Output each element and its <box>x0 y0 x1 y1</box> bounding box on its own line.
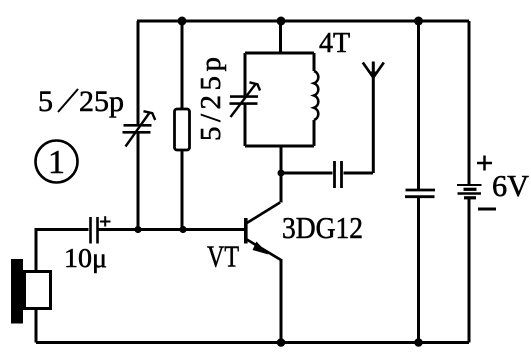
tank loop left edge lower <box>244 104 247 146</box>
battery GB plates <box>457 185 482 198</box>
wire emitter vertical <box>280 259 283 343</box>
tank loop bottom edge <box>245 145 314 148</box>
wire bypass cap upper lead <box>417 21 420 189</box>
transistor VT collector diagonal <box>246 203 280 224</box>
svg-text:5: 5 <box>38 85 53 118</box>
capacitor C5 bypass plates <box>405 190 435 197</box>
wire collector vertical <box>280 146 283 203</box>
wire battery top lead <box>468 21 471 185</box>
capacitor C3 trimmer arrow <box>231 82 261 117</box>
capacitor C2 10u plates <box>91 217 98 244</box>
tank loop right edge lower <box>313 120 316 146</box>
svg-text:3DG12: 3DG12 <box>282 210 363 245</box>
node junction bypass cap top <box>414 17 423 26</box>
battery polarity minus <box>478 208 496 211</box>
resistor R1 body <box>175 109 190 150</box>
wire coupling cap right lead <box>344 172 374 175</box>
label C1 value 5/25p <box>38 85 124 118</box>
antenna arms <box>363 63 384 78</box>
inductor L1 coil 4T <box>314 71 318 120</box>
svg-text:1: 1 <box>48 144 65 181</box>
wire bottom ground rail <box>36 341 469 344</box>
node junction tank top to rail <box>277 17 286 26</box>
svg-text:5/25p: 5/25p <box>195 57 227 141</box>
transistor VT emitter diagonal <box>246 239 281 260</box>
capacitor C4 coupling plates <box>335 161 342 188</box>
tank loop top edge <box>245 52 314 55</box>
node junction collector to coupling cap <box>278 170 285 177</box>
figure number circle 1 <box>36 141 78 183</box>
wire battery bottom lead <box>468 198 471 343</box>
capacitor C1 trimmer 5/25p plates <box>123 125 152 132</box>
battery polarity plus <box>477 156 492 171</box>
wire resistor branch upper <box>181 21 184 109</box>
transistor VT emitter arrow <box>253 242 269 255</box>
capacitor C2 polarity plus <box>100 216 111 226</box>
capacitor C3 trimmer plates <box>230 97 259 104</box>
microphone BM body <box>25 272 51 309</box>
wire left branch upper (C1 branch) <box>137 21 140 124</box>
svg-text:VT: VT <box>207 239 239 274</box>
wire bypass cap lower lead <box>417 197 420 343</box>
node junction R1 to base wire <box>179 226 186 233</box>
tank loop right edge upper <box>313 53 316 71</box>
svg-text:25p: 25p <box>79 85 124 118</box>
label C1 slash <box>58 89 78 112</box>
svg-text:4T: 4T <box>319 28 350 59</box>
antenna feed point <box>369 72 377 79</box>
svg-text:10μ: 10μ <box>64 243 107 273</box>
wire base wire <box>99 228 245 231</box>
capacitor C1 trimmer arrow <box>126 111 156 146</box>
wire resistor branch lower <box>181 150 184 229</box>
wire microphone top lead <box>36 230 89 271</box>
wire microphone bottom lead <box>35 310 38 343</box>
node junction bypass cap to ground rail <box>414 338 423 347</box>
microphone BM back plate <box>11 259 23 324</box>
node junction resistor top <box>178 17 187 26</box>
antenna mast <box>372 62 375 174</box>
svg-text:6V: 6V <box>492 168 530 203</box>
node junction emitter to ground rail <box>277 338 286 347</box>
wire coupling cap left lead <box>281 172 333 175</box>
wire left branch lower (C1 branch) <box>137 133 140 229</box>
wire top supply rail <box>137 20 469 23</box>
wire tank top connection <box>279 21 282 53</box>
transistor VT base bar <box>244 218 248 244</box>
tank loop left edge upper <box>244 53 247 96</box>
node junction C1 to base wire <box>134 226 141 233</box>
